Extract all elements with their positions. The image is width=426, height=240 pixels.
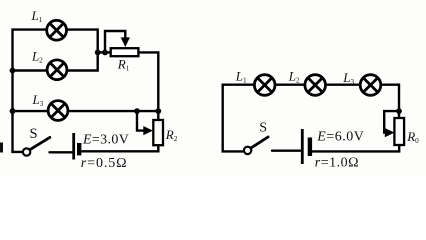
node: junction dot right rail row3 [155,108,161,114]
wire: R2 wiper loop [137,111,145,131]
resistor R1 body [111,48,139,56]
switch S pivot right circuit [244,147,251,154]
lamp L3 [48,101,68,121]
wire: left rail with rows 1-2 and mid rail loop [13,30,98,152]
svg-text:E=6.0V: E=6.0V [316,130,364,145]
lamp L2 right circuit [305,75,326,96]
switch S lever [30,137,50,149]
wire: outer loop left rail, top wire, right rail [223,85,399,152]
lamp L1 [47,20,67,40]
wire: R1 wiper loop [105,31,125,52]
wire: R1 left lead [98,51,111,53]
arrowhead: R0 wiper arrow [385,128,395,137]
battery short plate [77,143,81,155]
node: dot R2 wiper takeoff [134,108,140,114]
scan edge artifact left margin [0,143,3,153]
node: dot on mid rail at R1 lead [95,50,101,56]
node: junction dot R0 wiper [396,108,402,114]
battery long plate right circuit [301,129,304,164]
switch S lever right circuit [251,137,268,148]
wire: row3 branch (L3) to right rail [13,110,159,112]
lamp L2 [47,60,67,80]
wire: battery to R0 bottom stub right circuit [312,145,399,151]
arrowhead: R2 wiper arrow [143,126,153,135]
battery short plate right circuit [308,138,312,157]
svg-text:S: S [30,126,38,142]
resistor R0 body [394,118,404,145]
wire: R0 wiper loop [384,111,399,133]
node: junction dot left rail row2 [10,68,16,74]
wire: switch to battery [50,151,73,153]
node: junction dot left rail row3 [10,108,16,114]
lamp L1 right circuit [254,75,275,96]
wire: switch to battery right circuit [272,149,301,151]
battery long plate [72,133,75,160]
wire: battery to R2 bottom stub [81,145,158,151]
switch S pivot [23,148,30,155]
svg-text:E=3.0V: E=3.0V [82,132,129,147]
svg-text:S: S [259,121,267,136]
node: dot wiper takeoff R1 [102,50,108,56]
wire: R1 right lead and right rail [138,52,158,120]
arrowhead: R1 wiper arrow [121,37,130,47]
lamp L3 right circuit [360,75,381,96]
svg-text:r=0.5Ω: r=0.5Ω [81,156,128,171]
svg-text:r=1.0Ω: r=1.0Ω [315,155,359,170]
resistor R2 body [153,120,163,145]
